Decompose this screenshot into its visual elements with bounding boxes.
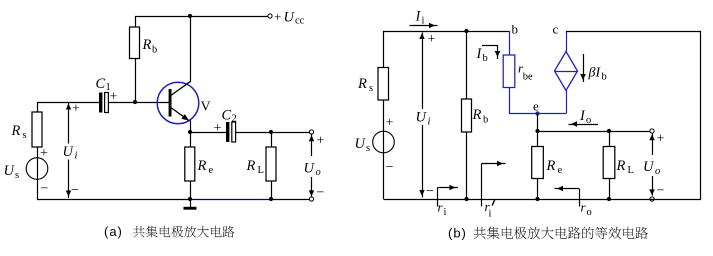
svg-text:U: U xyxy=(355,136,367,152)
resistor Rs (b) xyxy=(378,68,389,101)
svg-text:o: o xyxy=(586,115,591,126)
resistor Rb (b) xyxy=(462,99,472,132)
label Re (b) xyxy=(546,158,563,176)
node: base junction dot with Rb xyxy=(133,100,137,104)
ground symbol xyxy=(184,199,197,210)
svg-text:e: e xyxy=(533,99,539,114)
transistor V circle xyxy=(157,82,199,124)
node: RL bottom dot (a) xyxy=(269,197,273,201)
wire: e node down to rail xyxy=(537,114,539,200)
svg-text:i: i xyxy=(428,117,431,128)
svg-text:+: + xyxy=(214,121,222,136)
resistor Re (b) xyxy=(532,147,544,179)
terminal: output top circle (a) xyxy=(309,130,313,134)
svg-text:b: b xyxy=(483,53,488,64)
arrow Io xyxy=(569,121,599,127)
svg-text:o: o xyxy=(316,167,321,178)
wire: Re vertical (a) xyxy=(190,132,192,199)
label Uo (b) xyxy=(642,158,662,177)
svg-text:+: + xyxy=(386,116,394,131)
svg-text:i: i xyxy=(75,151,78,162)
svg-text:b: b xyxy=(152,45,157,56)
label ro xyxy=(581,200,592,219)
svg-text:+: + xyxy=(428,32,436,47)
transistor V emitter stroke with arrow xyxy=(171,108,189,121)
arrow Ui (b) double headed xyxy=(419,33,424,198)
svg-text:R: R xyxy=(197,158,207,174)
terminal: output bottom circle (a) xyxy=(309,197,313,201)
wire: top rail left (b) xyxy=(383,31,510,33)
label Us (a) xyxy=(4,163,20,181)
node: emitter junction dot xyxy=(188,130,192,134)
wire: Rs to Us (a) xyxy=(37,147,39,199)
wire: bottom rail right segment (a) xyxy=(271,199,310,201)
label Re (a) xyxy=(197,158,214,176)
arrow ro measurement xyxy=(555,186,580,207)
svg-text:+: + xyxy=(317,134,325,149)
wire: left vertical (b) xyxy=(383,31,385,68)
wire: right side vertical (b) xyxy=(700,31,702,199)
svg-text:R: R xyxy=(11,123,21,139)
node: RL bottom dot (b) xyxy=(607,197,611,201)
svg-text:−: − xyxy=(317,186,325,201)
svg-text:s: s xyxy=(366,143,370,154)
svg-text:cc: cc xyxy=(295,16,305,27)
label Uo (a) xyxy=(302,159,322,179)
wire: bottom rail navy segment (a) xyxy=(190,199,271,201)
svg-text:+: + xyxy=(40,146,48,161)
label Rs (a) xyxy=(11,123,27,141)
svg-text:−: − xyxy=(41,182,49,197)
svg-text:+: + xyxy=(657,132,665,147)
svg-text:V: V xyxy=(201,100,211,115)
label ri-prime xyxy=(485,199,495,220)
wire: collector vertical xyxy=(190,16,192,82)
svg-text:s: s xyxy=(23,130,27,141)
arrow Ui (a) double headed xyxy=(66,103,71,198)
wire: b branch blue vertical xyxy=(509,31,511,55)
svg-text:+: + xyxy=(274,9,281,24)
svg-text:U: U xyxy=(63,144,75,160)
transistor V collector stroke xyxy=(171,81,191,95)
svg-text:−: − xyxy=(71,183,79,198)
label beta-Ib xyxy=(588,66,607,83)
terminal: output bottom circle (b) xyxy=(650,197,654,201)
svg-text:C: C xyxy=(96,76,106,92)
node: e rail dot (b) xyxy=(535,197,539,201)
resistor Re (a) xyxy=(185,147,195,181)
label Rs (b) xyxy=(357,76,373,94)
svg-text:(a): (a) xyxy=(104,224,123,239)
svg-text:−: − xyxy=(426,184,434,199)
wire: Rb vertical lead xyxy=(135,16,137,102)
node: Re bottom dot (a) xyxy=(188,197,192,201)
arrow Uo (a) double headed xyxy=(309,135,314,197)
svg-text:U: U xyxy=(4,163,16,179)
label C1 xyxy=(96,76,111,93)
svg-text:L: L xyxy=(628,165,634,176)
arrow ri measurement xyxy=(438,185,459,207)
svg-text:−: − xyxy=(657,184,665,199)
wire: current source bottom blue xyxy=(566,91,568,114)
svg-text:2: 2 xyxy=(232,114,237,125)
svg-text:C: C xyxy=(222,108,232,124)
wire: Rb vertical (b) xyxy=(466,31,468,199)
caption (a) xyxy=(104,224,234,239)
wire: e horizontal blue xyxy=(509,113,566,115)
node: RL top dot (b) xyxy=(607,129,611,133)
label RL (a) xyxy=(246,158,264,176)
svg-text:−: − xyxy=(386,160,394,175)
node: Rb bottom dot (b) xyxy=(464,197,468,201)
source Us circle (b) xyxy=(373,131,395,153)
label Ui (a) xyxy=(60,144,81,162)
wire: rbe bottom blue xyxy=(509,88,511,114)
wire: RL vertical (a) xyxy=(271,132,273,199)
wire: top rail right (b) xyxy=(566,31,701,33)
svg-text:(b): (b) xyxy=(448,226,467,241)
svg-text:U: U xyxy=(284,10,296,26)
wire: RL vertical (b) xyxy=(609,131,611,199)
resistor RL (b) xyxy=(603,147,615,179)
wire: Rs top lead (a) xyxy=(37,102,39,112)
node: e junction blue dot xyxy=(535,111,539,115)
label Ii xyxy=(415,9,425,27)
capacitor C2 xyxy=(226,122,236,142)
svg-text:e: e xyxy=(558,165,563,176)
wire: emitter to C2 xyxy=(190,132,226,134)
svg-text:R: R xyxy=(357,76,367,92)
svg-text:R: R xyxy=(246,158,256,174)
svg-text:βI: βI xyxy=(588,66,602,81)
svg-text:U: U xyxy=(416,110,428,126)
svg-text:U: U xyxy=(643,159,655,175)
source Us circle (a) xyxy=(26,158,48,180)
terminal: output top circle (b) xyxy=(650,129,654,133)
label +Ucc xyxy=(274,9,305,27)
svg-text:R: R xyxy=(616,158,626,174)
transistor V base bar xyxy=(169,89,172,117)
caption (b) xyxy=(448,226,648,241)
capacitor C1 xyxy=(99,93,108,113)
wire: bottom rail (b) xyxy=(384,199,702,201)
wire: current source top blue xyxy=(566,31,568,52)
svg-text:i: i xyxy=(444,207,447,218)
node: output wire junction dot xyxy=(535,129,539,133)
svg-text:U: U xyxy=(304,161,316,177)
wire: C2 to output terminal xyxy=(236,132,310,134)
arrow beta-Ib xyxy=(580,54,586,82)
svg-text:R: R xyxy=(142,37,152,53)
resistor Rb (a) xyxy=(130,27,140,59)
wire: emitter vertical to emitter node xyxy=(190,121,192,133)
arrow Ii xyxy=(410,23,438,29)
resistor rbe blue xyxy=(503,55,515,88)
node: RL top junction dot (a) xyxy=(269,130,273,134)
label rbe xyxy=(518,61,533,83)
svg-text:e: e xyxy=(209,165,214,176)
svg-text:b: b xyxy=(483,115,488,126)
label RL (b) xyxy=(616,158,634,176)
svg-text:L: L xyxy=(258,165,264,176)
wire: output horizontal (b) xyxy=(538,131,651,133)
svg-text:s: s xyxy=(369,83,373,94)
resistor RL (a) xyxy=(266,147,276,181)
svg-text:R: R xyxy=(546,158,556,174)
arrow ri-prime measurement xyxy=(482,161,506,207)
svg-text:b: b xyxy=(512,22,519,37)
svg-text:be: be xyxy=(523,72,533,83)
label Us (b) xyxy=(355,136,371,154)
wire: top rail of circuit (a) to +Ucc terminal xyxy=(135,16,268,18)
svg-text:R: R xyxy=(472,107,482,123)
svg-text:b: b xyxy=(602,72,607,83)
svg-text:c: c xyxy=(553,22,559,37)
label Ui (b) xyxy=(414,109,435,128)
wire: C1 to base xyxy=(108,102,169,104)
svg-text:o: o xyxy=(655,166,660,177)
label ri xyxy=(438,200,447,219)
wire: Rs to Us (b) xyxy=(383,100,385,199)
svg-text:+: + xyxy=(72,102,80,117)
resistor Rs (a) xyxy=(32,112,42,147)
label Rb (b) xyxy=(472,107,489,126)
svg-text:i: i xyxy=(422,16,425,27)
svg-text:i: i xyxy=(489,209,492,220)
svg-text:s: s xyxy=(15,170,19,181)
wire: bottom rail left segment (a) xyxy=(37,199,190,201)
node: top rail junction dot xyxy=(188,14,192,18)
terminal +Ucc circle xyxy=(268,14,272,18)
arrow Ib xyxy=(482,45,500,59)
label C2 xyxy=(222,108,237,125)
current source beta-Ib diamond xyxy=(555,52,578,91)
arrow Uo (b) double headed xyxy=(649,134,654,196)
label Ib xyxy=(476,46,488,64)
wire: input to C1 xyxy=(37,102,99,104)
node: Rb top junction dot (b) xyxy=(464,29,468,33)
label Io xyxy=(579,108,591,126)
label Rb (a) xyxy=(142,37,158,56)
svg-text:o: o xyxy=(587,207,592,218)
